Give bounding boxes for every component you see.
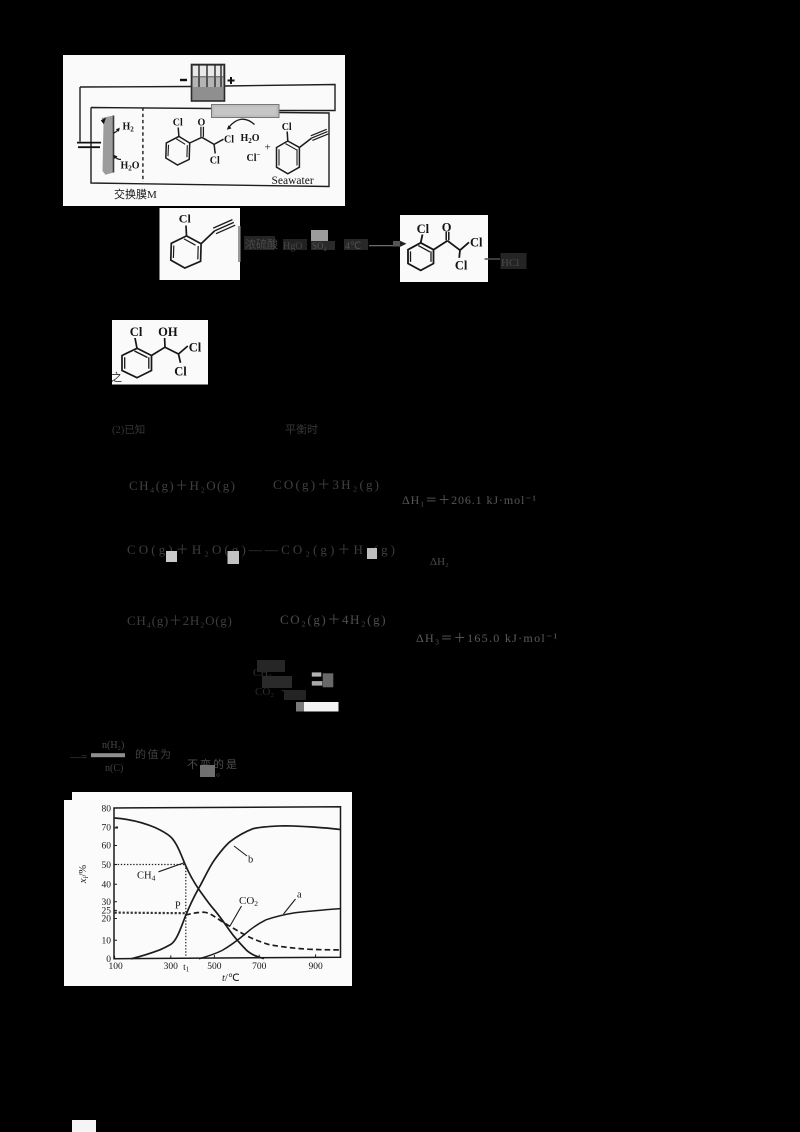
CH4 curve descending [115,818,264,959]
svg-text:Seawater: Seawater [272,175,314,187]
svg-text:n(H₂): n(H₂) [102,740,124,751]
bond C-CH [202,137,214,144]
b label pointer [234,846,247,856]
svg-text:交换膜M: 交换膜M [114,187,157,201]
triple bond A [213,220,235,234]
bond ring to carbonyl C B [434,241,448,250]
bond to Cl C [135,338,137,348]
svg-text:+: + [265,142,271,154]
svg-text:Cl: Cl [189,341,202,355]
svg-text:Cl: Cl [174,365,187,379]
bond to Cl B top [421,235,423,243]
svg-text:Cl: Cl [417,222,430,236]
svg-text:CH₄(g)＋2H₂O(g): CH₄(g)＋2H₂O(g) [127,613,233,628]
svg-text:40: 40 [102,881,112,891]
cathode electrode (gray plate) [102,116,114,175]
svg-text:t1: t1 [183,963,190,974]
svg-text:ΔH₂: ΔH₂ [430,556,449,568]
triple bond [311,129,329,140]
y axis ticks [114,828,117,940]
svg-text:10: 10 [102,937,112,947]
plus terminal label [228,77,235,84]
benzene ring C [122,348,152,377]
dotted vertical guide at t1 [185,865,187,959]
svg-text:Cl: Cl [179,212,192,226]
membrane M dashed line [142,108,144,183]
wire top left [80,86,192,89]
container cell box [91,108,329,187]
bond CH-Cl lower [214,144,215,153]
svg-text:(2)已知: (2)已知 [112,423,145,436]
svg-text:Cl: Cl [210,156,220,167]
svg-text:CO₂(g)＋4H₂(g): CO₂(g)＋4H₂(g) [280,612,387,627]
svg-text:70: 70 [102,824,112,834]
svg-text:t/℃: t/℃ [222,973,240,984]
arrow head entering patch B [400,241,407,248]
svg-text:80: 80 [102,805,112,815]
svg-text:n(C): n(C) [105,763,123,774]
gray blob right of equals [323,673,334,687]
svg-text:—=: —= [69,751,87,763]
svg-text:浓硫酸: 浓硫酸 [245,237,278,251]
battery G [192,65,225,102]
chart white patch [64,792,352,986]
structure alkyne in cell : benzene ring [277,129,329,174]
bond C-CHCl2 B [447,241,460,251]
svg-text:Cl: Cl [282,122,292,133]
bond to Cl [177,128,180,137]
svg-text:100: 100 [108,962,123,972]
svg-text:300: 300 [164,962,179,972]
svg-text:900: 900 [308,962,323,972]
anode gray bar electrode [212,105,280,118]
bond CH-Cl right C [179,346,188,354]
svg-text:OH: OH [158,325,178,339]
bond CH-Cl down C [179,354,181,363]
C=O double bond [201,127,204,137]
svg-text:O: O [442,221,452,235]
wire top right [225,85,336,111]
bright equals mark [312,672,322,676]
svg-text:。: 。 [216,768,226,779]
svg-text:Cl: Cl [470,236,483,250]
wire left vertical [79,87,81,142]
bond ring to carbonyl C [190,137,202,143]
H2O arrow [115,157,121,160]
svg-text:500: 500 [207,962,222,972]
svg-text:ΔH₁＝＋206.1 kJ·mol⁻¹: ΔH₁＝＋206.1 kJ·mol⁻¹ [402,493,537,507]
bond CH-Cl down B [458,250,461,258]
x axis labels [108,962,323,974]
faint reagent text over arrow (on black) [244,230,368,252]
structure ketone in cell : benzene ring [166,127,224,165]
faint + HCl after patch B [485,258,500,260]
x axis ticks [115,954,316,958]
line E fraction bar [91,753,125,757]
white rect mid page [304,702,339,712]
svg-text:HCl: HCl [501,257,519,269]
a curve ascending [199,909,341,959]
bond CH-Cl right B [460,242,469,250]
CO2 label pointer [230,906,242,926]
bond to Cl A [185,226,188,236]
bond ring to alkyne [299,138,311,147]
minus terminal label [180,79,187,81]
svg-text:HgO: HgO [283,241,302,252]
line C bright speckles [166,551,177,562]
svg-text:之: 之 [111,370,122,384]
benzene ring B [408,243,434,271]
bond carbinol to OH [164,338,166,347]
svg-text:SO₄: SO₄ [312,241,327,251]
bond ring to carbinol C [152,347,166,355]
small tick near 70 [116,827,119,829]
H2 arrow [114,130,119,134]
svg-text:Cl: Cl [224,135,234,146]
C=O double bond B [446,232,449,240]
svg-text:60: 60 [102,842,112,852]
svg-text:4℃: 4℃ [345,241,361,252]
bond CH-Cl upper [214,139,223,144]
bond to alkyne A [201,231,215,244]
b curve ascending [131,826,341,959]
CH4 label pointer [159,863,185,872]
svg-text:P: P [175,901,181,912]
faint reaction arrow [369,245,398,247]
bottom-left white rect [72,1120,96,1132]
svg-text:Cl: Cl [455,259,468,273]
svg-text:Cl: Cl [173,118,183,129]
plot box frame [114,807,341,959]
svg-text:ΔH₃＝＋165.0 kJ·mol⁻¹: ΔH₃＝＋165.0 kJ·mol⁻¹ [416,631,559,645]
dashed curve (H2O) [185,912,340,950]
bond to Cl [286,132,289,142]
patch B white : dichloroacetophenone [400,215,488,282]
svg-text:xi/%: xi/% [78,865,90,885]
benzene ring A [171,236,201,268]
svg-text:CO(g)＋3H₂(g): CO(g)＋3H₂(g) [273,477,381,492]
y axis labels [102,805,112,966]
svg-text:700: 700 [252,962,267,972]
svg-text:平衡时: 平衡时 [285,423,318,436]
svg-text:Cl: Cl [130,325,143,339]
cell diagram white patch [63,55,345,206]
svg-text:a: a [297,890,302,901]
curved arrow over H2O [229,119,255,127]
a label pointer [284,899,296,914]
bond carbinol to CHCl2 [165,347,179,354]
patch A white : 2-chlorophenylacetylene [160,208,241,280]
svg-text:b: b [248,855,253,866]
svg-text:O: O [198,118,206,129]
capacitor plates (cell connector) [77,142,101,144]
svg-text:的值为: 的值为 [135,747,173,761]
dashed guide line at 24.5 [115,911,185,914]
dotted guide line at 50 [115,864,186,866]
svg-text:20: 20 [102,915,112,925]
svg-text:50: 50 [102,861,112,871]
svg-text:CH₄(g)＋H₂O(g): CH₄(g)＋H₂O(g) [129,478,236,493]
patch C white : dichloro alcohol [112,320,208,385]
